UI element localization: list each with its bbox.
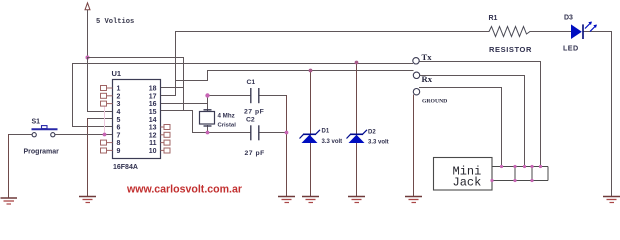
wire Tx loop vertical to pin6 (72, 64, 74, 127)
pin 8 terminal square (107, 142, 113, 144)
svg-text:2: 2 (117, 93, 121, 100)
svg-text:3: 3 (117, 101, 121, 108)
wire S1 left to ground (9, 134, 33, 136)
svg-text:Cristal: Cristal (218, 123, 237, 129)
svg-text:16: 16 (149, 101, 157, 108)
svg-text:RESISTOR: RESISTOR (489, 45, 532, 54)
svg-text:D3: D3 (564, 15, 573, 22)
power symbol 5V arrow (85, 3, 90, 10)
node junction dot S1 pin3 (103, 133, 107, 137)
svg-text:U1: U1 (112, 69, 122, 78)
svg-text:C2: C2 (246, 117, 255, 124)
svg-text:www.carlosvolt.com.ar: www.carlosvolt.com.ar (126, 184, 242, 196)
svg-text:Tx: Tx (422, 52, 433, 62)
node Rx port circle (413, 72, 419, 78)
wire bus vertical B down to pin15 row (183, 58, 185, 111)
wire pin4 to 5V vertical (88, 111, 113, 113)
wire S1 right to pin7 (55, 134, 113, 136)
wire LED cathode to right ground (583, 31, 612, 33)
svg-text:C1: C1 (247, 79, 256, 86)
svg-text:16F84A: 16F84A (113, 164, 138, 171)
capacitor C1 (251, 88, 259, 103)
pin 13 terminal square (161, 126, 166, 128)
wire resistor feed horizontal (176, 31, 490, 33)
node junction C2 ground (285, 131, 289, 135)
pin 10 terminal square (161, 149, 166, 151)
wire pin15 from IC (161, 110, 193, 112)
svg-text:7: 7 (117, 132, 121, 139)
svg-text:R1: R1 (489, 15, 498, 22)
svg-text:4 Mhz: 4 Mhz (218, 113, 235, 120)
wire Rx corner vertical (207, 71, 209, 81)
svg-text:D2: D2 (368, 130, 376, 136)
wire pin15 route to crystal bottom (193, 132, 208, 134)
LED D3 (571, 22, 597, 40)
ground symbol D1 (302, 197, 319, 203)
wire pin17 from IC to vertical A (161, 95, 176, 97)
pin 11 terminal square (161, 142, 166, 144)
wire ground port to jack corner (420, 87, 502, 89)
svg-text:15: 15 (149, 109, 157, 116)
wire D1 vertical (310, 71, 312, 197)
svg-text:5: 5 (117, 117, 121, 124)
wire crystal bottom to C2 left (208, 132, 251, 134)
wire C2 right to ground vertical (259, 132, 287, 134)
pin 9 terminal square (107, 149, 113, 151)
pin numbers left column (117, 86, 121, 155)
svg-text:LED: LED (563, 44, 579, 53)
svg-text:6: 6 (117, 125, 121, 132)
wire pin16 to crystal node (161, 103, 208, 105)
node junction crystal bottom (206, 131, 210, 135)
ground symbol S1 left (1, 198, 18, 204)
pin 2 terminal square (107, 95, 113, 97)
wire OSC1 node to C1 left (208, 95, 251, 97)
svg-text:8: 8 (117, 140, 121, 147)
svg-text:12: 12 (149, 132, 157, 139)
zener diode D2 (347, 130, 368, 143)
svg-text:GROUND: GROUND (422, 99, 447, 105)
svg-text:27 pF: 27 pF (244, 109, 264, 116)
node junction D1 on Rx wire (309, 69, 313, 73)
node junction D2 on Tx wire (355, 61, 359, 65)
ground symbol D2 (348, 197, 365, 203)
svg-text:14: 14 (149, 117, 157, 124)
svg-text:18: 18 (149, 86, 157, 93)
node junction OSC1 (205, 93, 209, 97)
wire C1 right to ground vertical (259, 95, 287, 97)
svg-text:9: 9 (117, 148, 121, 155)
wire Rx horizontal to port (208, 70, 414, 72)
svg-text:Rx: Rx (422, 74, 433, 84)
pin numbers right column (149, 86, 157, 155)
wire 5V vertical from arrow to bus (87, 11, 89, 58)
zener diode D1 (300, 130, 321, 143)
wire branch A to Rx corner (176, 80, 208, 82)
svg-text:1: 1 (117, 86, 121, 93)
wire Tx port to jack corner (420, 61, 541, 63)
svg-text:13: 13 (149, 125, 157, 132)
wire D2 vertical (356, 63, 358, 197)
svg-text:S1: S1 (32, 119, 41, 126)
svg-text:17: 17 (149, 93, 157, 100)
crystal X1 4MHz (200, 110, 215, 126)
ground symbol LED right (603, 197, 620, 203)
op IC U1 16F84A body (113, 80, 161, 159)
svg-text:3.3 volt: 3.3 volt (322, 139, 343, 145)
node GROUND port circle (413, 89, 419, 95)
wire crystal top stub (207, 96, 209, 111)
svg-text:D1: D1 (322, 129, 330, 135)
svg-text:11: 11 (149, 140, 157, 147)
svg-text:5 Voltios: 5 Voltios (96, 18, 134, 26)
node 5V junction dot (86, 56, 90, 60)
capacitor C2 (251, 125, 259, 140)
wire pink vertical pin3 to S1 net (104, 107, 106, 135)
svg-text:10: 10 (149, 148, 157, 155)
resistor R1 (489, 27, 530, 37)
node Tx port circle (413, 58, 419, 64)
wire pin6 from loop to IC (73, 126, 113, 128)
connector Mini Jack box (434, 158, 493, 191)
wire pin15 route down (192, 111, 194, 133)
pin 1 terminal square (101, 86, 171, 154)
wire resistor to LED (530, 31, 571, 33)
pin 12 terminal square (161, 134, 166, 136)
wire Tx horizontal to port (73, 63, 413, 65)
wire jack contact ladder (492, 167, 548, 181)
wire pin5 to ground vertical (88, 118, 113, 120)
svg-text:27 pF: 27 pF (245, 150, 265, 157)
wire 5V bus horizontal (88, 57, 184, 59)
svg-text:3.3 volt: 3.3 volt (368, 140, 389, 146)
ground symbol pin5 (79, 197, 96, 203)
wire pin18 from IC to vertical B (161, 87, 184, 89)
pin 3 terminal square (107, 103, 113, 105)
svg-text:Jack: Jack (453, 176, 482, 190)
ground symbol C1 C2 (278, 197, 295, 203)
node jack junction dots (490, 165, 542, 182)
wire ground port down to ground symbol (413, 95, 415, 197)
svg-text:4: 4 (117, 109, 121, 116)
ground symbol GROUND port (405, 197, 422, 203)
switch S1 pushbutton (32, 126, 58, 137)
svg-text:Programar: Programar (24, 149, 60, 156)
wire crystal bottom stub (207, 126, 209, 133)
wire Rx port to jack corner (420, 75, 525, 77)
wire vertical A resistor net (175, 32, 177, 96)
